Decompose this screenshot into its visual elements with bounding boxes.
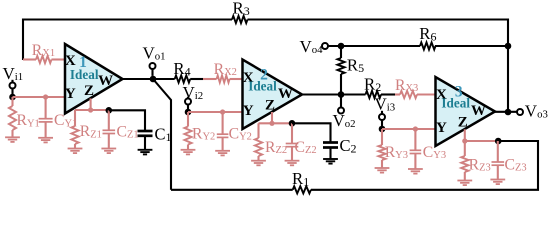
capacitor C2 (323, 143, 338, 159)
wire Y1 input net (13, 96, 66, 98)
ground CY1 (38, 138, 53, 143)
resistor R1 (293, 186, 311, 193)
label R3 (233, 0, 250, 18)
node Vo2 terminal (338, 95, 344, 114)
label C2 (340, 136, 357, 156)
label CY3 (423, 144, 446, 161)
label C1 (155, 125, 172, 145)
label CY1 (54, 112, 77, 129)
svg-text:Z: Z (265, 98, 275, 114)
designator 3 (U3) (455, 83, 463, 100)
designator 2 (U2) (260, 67, 268, 84)
wire RX2 lead (203, 78, 243, 80)
node CY3 junction (413, 126, 418, 131)
label RY2 (192, 125, 215, 142)
label Ideal (U3) (441, 96, 470, 111)
node Vi2 junction (185, 109, 192, 116)
label Vo3 (525, 101, 548, 120)
ground CZ3 (490, 180, 505, 185)
label RZ1 (80, 123, 102, 140)
wire Z2 net (259, 122, 293, 124)
label R6 (419, 24, 436, 44)
svg-text:Ideal: Ideal (441, 96, 470, 111)
svg-text:Y: Y (243, 103, 254, 119)
ground RY3 (375, 168, 390, 173)
ground C2 (323, 159, 338, 164)
label CZ1 (117, 124, 139, 141)
pin label Z (U2) (265, 98, 275, 114)
node Vo1 terminal (150, 63, 156, 76)
resistor RZ1 (71, 110, 78, 148)
label Ideal (U2) (248, 79, 277, 94)
label R1 (292, 169, 309, 189)
pin label X (U2) (243, 70, 254, 86)
pin label Y (U2) (243, 103, 254, 119)
wire W2 output net (302, 93, 395, 95)
wire Y3 input net (382, 128, 436, 130)
resistor RY2 (184, 112, 191, 150)
node CY1 junction (43, 94, 48, 99)
capacitor CY1 (39, 97, 53, 138)
label RX1 (32, 42, 55, 59)
pin label X (U3) (436, 87, 447, 103)
ground CZ2 (285, 161, 300, 166)
label RZ2 (265, 139, 287, 156)
pin label W (U1) (98, 73, 113, 89)
label RX3 (395, 77, 418, 94)
svg-text:W: W (98, 73, 113, 89)
wire to C1 (109, 110, 145, 131)
wire to C2 (292, 123, 331, 142)
resistor R4 (175, 75, 191, 82)
wire Z3 stem (464, 129, 466, 141)
label RY1 (17, 112, 40, 129)
node Vi2 terminal (185, 97, 191, 110)
wire RX3 lead (395, 93, 436, 95)
wire Vo1 to bottom rail (153, 79, 171, 190)
node Vo3 terminal (517, 109, 523, 115)
label Vi3 (375, 95, 396, 114)
junction R6/right rail node (505, 43, 512, 50)
op-amp U3 (436, 77, 496, 146)
label R4 (173, 59, 190, 79)
node CY2 junction (220, 109, 225, 114)
node W3/rail junction (505, 109, 512, 116)
svg-text:Ideal: Ideal (70, 67, 99, 82)
node Z1 junction (88, 107, 93, 112)
pin label Y (U3) (436, 120, 447, 136)
wire RX1 lead (23, 58, 66, 60)
label Vo1 (143, 43, 166, 62)
resistor RX3 (400, 91, 417, 98)
node CZ2/C2 junction (289, 120, 296, 127)
label Vi1 (3, 64, 24, 83)
capacitor CY2 (217, 112, 229, 151)
ground RZ1 (68, 149, 83, 154)
node R5/W2 junction (338, 91, 345, 98)
label RY3 (385, 144, 408, 161)
label CZ3 (505, 156, 527, 173)
ground RZ3 (457, 181, 472, 186)
ground RZ2 (251, 161, 266, 166)
resistor RY1 (9, 97, 16, 137)
node Z3 junction (462, 138, 467, 143)
resistor RZ3 (461, 141, 468, 180)
svg-text:Ideal: Ideal (248, 79, 277, 94)
pin label W (U2) (278, 86, 293, 102)
node Vi3 junction (379, 126, 386, 133)
node CZ1/C1 junction (106, 107, 113, 114)
ground RY2 (181, 150, 196, 155)
op-amp U1 (65, 44, 123, 114)
node Vi3 terminal (379, 111, 385, 126)
designator 1 (U1) (79, 54, 87, 71)
resistor RY3 (378, 129, 385, 168)
label Vi2 (183, 83, 204, 102)
label CZ2 (295, 139, 317, 156)
node Vi1 junction (9, 94, 16, 101)
wire Z2 stem (271, 112, 273, 123)
node Vo1 junction (150, 76, 157, 83)
resistor RZ2 (255, 123, 262, 160)
ground RY1 (5, 137, 20, 142)
node Vi1 terminal (10, 80, 16, 94)
label RZ3 (469, 156, 491, 173)
node Vo4 terminal (322, 43, 328, 49)
wire Y2 input net (188, 111, 243, 113)
svg-text:Z: Z (458, 114, 468, 130)
resistor RX2 (217, 75, 230, 82)
ground C1 (138, 150, 153, 155)
ground CY3 (408, 169, 423, 174)
svg-text:W: W (471, 103, 486, 119)
resistor RX1 (36, 56, 52, 63)
resistor R6 (420, 42, 436, 49)
pin label Z (U1) (84, 83, 94, 99)
wire bottom rail with R1 (171, 141, 538, 190)
label R2 (364, 75, 381, 95)
resistor R2 (366, 91, 382, 98)
pin label W (U3) (471, 103, 486, 119)
svg-text:Y: Y (436, 120, 447, 136)
svg-text:Z: Z (84, 83, 94, 99)
wire Z1 net (75, 109, 109, 111)
label Vo4 (300, 37, 324, 56)
node Z2 junction (269, 121, 274, 126)
wire R3 feedback net with left and right verticals (23, 20, 508, 113)
wire W3 output net (495, 111, 517, 113)
pin label Z (U3) (458, 114, 468, 130)
label CY2 (229, 125, 252, 142)
svg-text:Y: Y (65, 86, 76, 102)
wire W1 output net (123, 78, 204, 80)
capacitor CZ1 (103, 110, 116, 148)
op-amp U2 (243, 60, 303, 130)
capacitor CZ2 (286, 123, 299, 160)
label Vo2 (333, 111, 356, 130)
label RX2 (214, 61, 237, 78)
capacitor CZ3 (492, 141, 505, 179)
wire R6 net Vo4 to right rail (328, 45, 508, 47)
pin label Y (U1) (65, 86, 76, 102)
capacitor C1 (138, 131, 153, 150)
label R5 (347, 56, 364, 76)
svg-text:W: W (278, 86, 293, 102)
wire Z1 stem (90, 98, 92, 110)
capacitor CY3 (410, 129, 422, 169)
wire Z3 net (465, 140, 498, 142)
junction R5/R6 node (338, 43, 345, 50)
ground CZ1 (101, 149, 116, 154)
resistor R3 (232, 16, 248, 23)
node CZ3 junction (495, 138, 502, 145)
label Ideal (U1) (70, 67, 99, 82)
ground CY2 (215, 151, 230, 156)
pin label X (U1) (65, 53, 76, 69)
resistor R5 (337, 46, 344, 95)
